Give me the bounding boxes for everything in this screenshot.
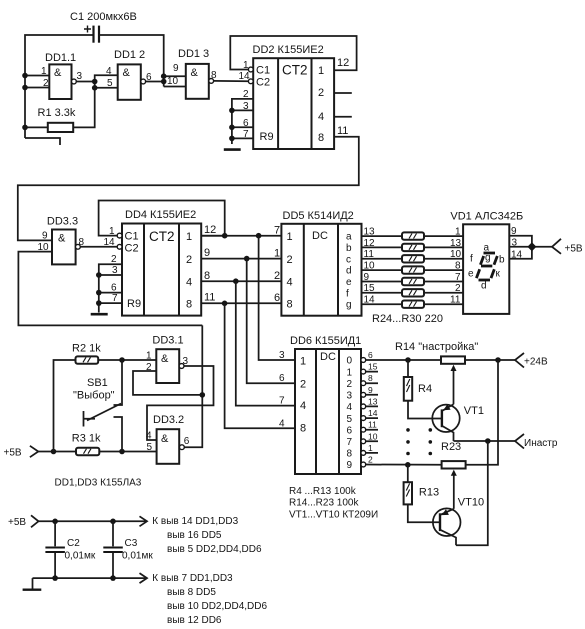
node DD4 pin6 junction xyxy=(96,290,102,296)
svg-text:R14...R23 100k: R14...R23 100k xyxy=(289,498,359,509)
wire to +24V terminal xyxy=(498,359,515,361)
wire +5V to R3 xyxy=(38,451,76,453)
wire +24V rail down to R23 xyxy=(466,360,498,465)
wire stub below left rail xyxy=(25,138,60,145)
DD6 output inversion circles xyxy=(361,358,366,467)
node +5V branch xyxy=(51,449,57,455)
wire up to R2 xyxy=(54,360,76,452)
svg-text:VT1: VT1 xyxy=(464,405,484,417)
resistor R4 xyxy=(404,377,432,401)
wire bus out2 xyxy=(201,258,281,260)
svg-text:+5В: +5В xyxy=(565,244,583,255)
wire DD1.1 pin1 xyxy=(25,75,49,77)
svg-text:&: & xyxy=(161,353,169,365)
svg-text:12: 12 xyxy=(364,238,376,249)
svg-text:8: 8 xyxy=(300,423,306,435)
node DD4 pin3 junction xyxy=(96,272,102,278)
svg-text:9: 9 xyxy=(368,385,373,395)
VD1 left pin labels 1 13 10 8 7 2 11 xyxy=(450,227,462,306)
svg-text:14: 14 xyxy=(239,71,251,82)
resistors R24-R30 xyxy=(372,232,443,325)
wires DD5 outputs to resistors xyxy=(362,236,403,304)
svg-text:11: 11 xyxy=(337,125,348,137)
display VD1 ALS342B box xyxy=(450,211,523,314)
svg-text:6: 6 xyxy=(111,283,117,294)
DD6 output stubs rows 1-8 xyxy=(366,372,378,453)
svg-text:DD4 К155ИЕ2: DD4 К155ИЕ2 xyxy=(125,209,196,221)
node DD4 pin7 junction xyxy=(96,300,102,306)
wire DD1.3 output to DD2 C2 xyxy=(214,80,249,82)
svg-text:&: & xyxy=(58,233,66,245)
VD1 segment letters xyxy=(468,243,505,292)
wire R2 to DD3.1 pin1 xyxy=(98,359,156,361)
terminal +5V right chevron xyxy=(552,239,561,254)
svg-text:0,01мк: 0,01мк xyxy=(65,551,96,562)
svg-text:&: & xyxy=(123,67,131,79)
svg-text:7: 7 xyxy=(274,225,280,237)
VD1 right pin labels 9 3 14 xyxy=(511,226,523,261)
svg-text:4: 4 xyxy=(186,277,192,289)
wire node to DD3.1 pin2 xyxy=(133,371,202,395)
svg-text:C2: C2 xyxy=(125,243,139,255)
terminal Inastr chevron xyxy=(515,434,524,449)
wire DD2 out2 stub xyxy=(334,92,352,94)
wire R4 bottom to VT1 base xyxy=(408,401,442,419)
svg-text:4: 4 xyxy=(279,418,285,429)
svg-text:8: 8 xyxy=(204,270,210,282)
svg-text:DD3.3: DD3.3 xyxy=(47,216,78,228)
wire DD3.2 out up to node xyxy=(184,325,202,447)
node Inastr junction xyxy=(485,438,491,444)
node diamond junction xyxy=(527,242,536,251)
wire R4 top xyxy=(407,360,409,377)
svg-text:C2: C2 xyxy=(256,77,270,89)
svg-text:4: 4 xyxy=(106,66,112,77)
svg-text:3: 3 xyxy=(243,101,249,112)
pin 14 C2 inversion DD4 xyxy=(117,244,122,249)
wires resistors to VD1 xyxy=(424,236,463,304)
terminal +5V bottom chevron xyxy=(31,515,39,527)
wire DD1.3 pin10 stub xyxy=(164,86,186,88)
wire left rail top xyxy=(25,35,93,138)
svg-text:VT1...VT10 КТ209И: VT1...VT10 КТ209И xyxy=(289,509,378,520)
svg-text:g: g xyxy=(485,253,491,264)
svg-text:4: 4 xyxy=(300,400,306,412)
svg-text:выв 5 DD2,DD4,DD6: выв 5 DD2,DD4,DD6 xyxy=(167,544,262,555)
svg-text:С1 200мкх6В: С1 200мкх6В xyxy=(70,11,137,23)
wire DD1.1 pin2 xyxy=(25,87,49,89)
svg-text:4: 4 xyxy=(318,111,324,123)
svg-text:R9: R9 xyxy=(260,131,274,143)
trimmer R23 xyxy=(441,441,466,509)
svg-text:2: 2 xyxy=(455,283,461,294)
node branch out4 xyxy=(233,278,239,284)
svg-text:a: a xyxy=(346,232,352,243)
svg-text:Инастр: Инастр xyxy=(524,438,558,449)
svg-text:+5В: +5В xyxy=(4,448,22,459)
wire branch out1 down to DD6 in1 xyxy=(259,236,295,360)
svg-text:R13: R13 xyxy=(419,487,439,499)
svg-text:1: 1 xyxy=(300,356,306,368)
svg-text:13: 13 xyxy=(368,396,378,406)
svg-text:c: c xyxy=(346,254,351,265)
svg-text:0,01мк: 0,01мк xyxy=(122,551,153,562)
svg-text:3: 3 xyxy=(279,350,285,361)
decoder DD6 K155ID1 box xyxy=(290,335,361,474)
wire branch out4 down to DD6 in4 xyxy=(236,281,295,405)
node C3 top xyxy=(110,519,116,525)
node DD1.3 pin9 junction xyxy=(161,73,167,79)
svg-text:2: 2 xyxy=(243,89,249,100)
switch SB1 xyxy=(73,360,122,452)
svg-text:5: 5 xyxy=(347,414,353,425)
capacitor C2 xyxy=(45,521,95,578)
wire VT1 emitter to Inastr xyxy=(454,440,516,442)
svg-text:6: 6 xyxy=(243,118,249,129)
wire bus out4 xyxy=(201,280,281,282)
node SB1 lower branch xyxy=(119,449,125,455)
svg-text:1: 1 xyxy=(287,231,293,243)
svg-text:1: 1 xyxy=(146,351,152,362)
svg-text:4: 4 xyxy=(347,402,353,413)
node DD1.2 pin5 junction xyxy=(92,85,98,91)
node C2 bottom xyxy=(52,575,58,581)
svg-text:13: 13 xyxy=(450,238,462,249)
svg-text:6: 6 xyxy=(184,436,190,447)
DD6 input pin labels 3 6 7 4 xyxy=(279,350,285,429)
svg-text:12: 12 xyxy=(204,224,216,236)
wire DD3.3 pin10 from flipflop rail xyxy=(18,252,202,326)
logic gate DD3.1 xyxy=(146,335,189,383)
svg-text:C1: C1 xyxy=(125,231,139,243)
svg-text:9: 9 xyxy=(347,460,353,471)
wire DD3.3 output to DD4 C2 xyxy=(80,246,117,248)
svg-text:выв 12 DD6: выв 12 DD6 xyxy=(167,615,222,626)
svg-text:0: 0 xyxy=(347,356,353,367)
svg-text:7: 7 xyxy=(243,129,249,140)
node SB1 upper branch xyxy=(119,357,125,363)
wire top power rail xyxy=(39,520,147,522)
svg-text:9: 9 xyxy=(42,231,48,242)
svg-text:11: 11 xyxy=(368,420,377,430)
label power connections top xyxy=(152,516,262,555)
svg-text:C1: C1 xyxy=(256,65,270,77)
svg-text:DD3.2: DD3.2 xyxy=(153,414,184,426)
svg-text:e: e xyxy=(346,277,352,288)
svg-text:R14 "настройка": R14 "настройка" xyxy=(395,341,478,353)
svg-text:14: 14 xyxy=(104,237,116,248)
svg-text:7: 7 xyxy=(112,293,118,304)
resistor R13 xyxy=(404,482,439,504)
wire DD2 pin2 to ground rail xyxy=(232,99,253,144)
svg-text:9: 9 xyxy=(173,63,179,74)
wire DD2 feedback loop pin12 to C1 xyxy=(230,36,356,70)
svg-text:C3: C3 xyxy=(125,538,138,549)
ellipsis dots column 1 xyxy=(406,428,410,455)
terminal +5V left chevron xyxy=(30,446,38,457)
svg-text:R2 1k: R2 1k xyxy=(72,343,101,355)
svg-text:"Выбор": "Выбор" xyxy=(73,390,115,402)
SEC1 top oscillator xyxy=(22,11,248,145)
node DD1.2 input junction xyxy=(92,79,98,85)
VD1 seven segment glyph xyxy=(476,253,497,280)
wire left rail to R1 xyxy=(25,126,48,128)
ground bottom left xyxy=(23,578,42,590)
svg-text:14: 14 xyxy=(364,295,376,306)
wire bus out8 xyxy=(201,302,281,304)
svg-text:1: 1 xyxy=(347,367,353,378)
svg-text:К выв 14 DD1,DD3: К выв 14 DD1,DD3 xyxy=(152,516,238,527)
wire bus out1 DD4 to DD5 xyxy=(201,235,281,237)
svg-text:2: 2 xyxy=(111,254,117,265)
svg-text:11: 11 xyxy=(364,249,375,260)
arrow bottom rail xyxy=(140,573,148,583)
svg-text:R1 3.3k: R1 3.3k xyxy=(38,107,76,119)
svg-text:3: 3 xyxy=(77,71,83,82)
logic gate DD1.2 xyxy=(106,49,152,100)
wire DD4 pin7 stub xyxy=(99,302,122,304)
terminal +24V chevron xyxy=(515,353,524,368)
counter DD4 K155IE2 box xyxy=(122,209,201,316)
wire DD4 pin3 stub xyxy=(99,274,122,276)
svg-text:5: 5 xyxy=(147,442,153,453)
svg-text:VT10: VT10 xyxy=(458,497,484,509)
svg-text:R4: R4 xyxy=(418,383,432,395)
svg-text:15: 15 xyxy=(364,283,376,294)
svg-text:2: 2 xyxy=(274,270,280,282)
svg-text:&: & xyxy=(54,67,62,79)
svg-text:2: 2 xyxy=(368,455,373,465)
SEC6 bottom power xyxy=(8,515,268,626)
svg-text:2: 2 xyxy=(287,254,293,266)
svg-text:8: 8 xyxy=(455,261,461,272)
svg-text:DD1.1: DD1.1 xyxy=(45,52,76,64)
arrow top rail xyxy=(140,516,148,526)
node branch out1 xyxy=(256,233,262,239)
logic gate DD3.3 xyxy=(38,216,85,265)
node branch out8 xyxy=(222,301,228,307)
svg-text:8: 8 xyxy=(347,449,353,460)
svg-text:6: 6 xyxy=(279,373,285,384)
svg-text:выв 8 DD5: выв 8 DD5 xyxy=(167,587,216,598)
wire R3 to DD3.2 pin5 xyxy=(99,451,156,453)
svg-text:DD1 3: DD1 3 xyxy=(178,48,209,60)
svg-text:10: 10 xyxy=(368,431,378,441)
DD6 output digits 0-9 xyxy=(347,356,353,472)
wire DD3.1 out to DD3.2 pin4 xyxy=(147,366,214,440)
logic gate DD1.3 xyxy=(167,48,217,99)
svg-text:b: b xyxy=(499,255,505,266)
svg-text:f: f xyxy=(470,254,473,265)
wire branch out8 down to DD6 in8 xyxy=(225,303,295,428)
svg-text:f: f xyxy=(346,288,349,299)
svg-text:9: 9 xyxy=(204,247,210,259)
node pin3 junction xyxy=(229,108,235,114)
svg-text:10: 10 xyxy=(450,249,462,260)
node R13 branch xyxy=(405,462,411,468)
resistor R3 1k xyxy=(72,433,101,456)
resistor R1 3.3k xyxy=(38,107,76,132)
svg-text:1: 1 xyxy=(455,227,461,238)
ground DD4 xyxy=(91,313,108,316)
svg-text:15: 15 xyxy=(368,362,378,372)
svg-text:CT2: CT2 xyxy=(149,229,175,244)
svg-text:3: 3 xyxy=(347,391,353,402)
svg-text:2: 2 xyxy=(186,254,192,266)
svg-text:3: 3 xyxy=(112,265,118,276)
svg-text:DD1 2: DD1 2 xyxy=(114,49,145,61)
svg-text:4: 4 xyxy=(287,277,293,289)
svg-text:к: к xyxy=(496,269,501,280)
wire VT10 emitter up to Inastr node xyxy=(456,441,488,545)
SEC3 DD3.3 DD4 DD5 VD1 row xyxy=(18,201,583,429)
svg-text:12: 12 xyxy=(337,57,349,69)
node DD1.1 pin2 junction xyxy=(22,85,28,91)
SEC2 DD2 counter xyxy=(18,36,359,240)
DD6 output pin numbers xyxy=(368,350,378,465)
capacitor C3 xyxy=(103,521,153,578)
svg-text:DD6 К155ИД1: DD6 К155ИД1 xyxy=(290,335,361,347)
svg-text:выв 10 DD2,DD4,DD6: выв 10 DD2,DD4,DD6 xyxy=(167,601,268,612)
wire DD2 pin7 stub xyxy=(232,137,253,139)
svg-text:e: e xyxy=(468,268,474,279)
decoder DD5 K514ID2 box xyxy=(281,210,361,316)
svg-text:1: 1 xyxy=(41,66,47,77)
svg-text:DC: DC xyxy=(312,230,328,242)
svg-text:8: 8 xyxy=(368,373,373,383)
wire DD1.3 pin9 stub xyxy=(164,75,186,77)
wire DD6 out9 row xyxy=(366,464,442,466)
svg-text:8: 8 xyxy=(318,132,324,144)
wire R13 bottom to VT10 base xyxy=(408,504,440,522)
node pin7 junction xyxy=(229,136,235,142)
svg-text:7: 7 xyxy=(455,272,461,283)
label power connections bottom xyxy=(152,573,267,626)
svg-text:+24В: +24В xyxy=(524,357,548,368)
svg-text:7: 7 xyxy=(347,437,353,448)
SEC5 DD6 transistors xyxy=(279,335,558,545)
svg-text:&: & xyxy=(161,433,169,445)
svg-text:DD2 К155ИЕ2: DD2 К155ИЕ2 xyxy=(253,44,324,56)
node R4 branch xyxy=(405,357,411,363)
svg-text:&: & xyxy=(191,67,199,79)
pin 1 C1 inversion xyxy=(248,67,253,72)
transistor VT10 xyxy=(433,497,484,546)
wire bottom ground rail xyxy=(33,577,147,579)
node R1 left junction xyxy=(22,125,28,131)
wire DD2 pin11 long feedback to DD3.3 pin9 xyxy=(18,137,359,241)
svg-text:1: 1 xyxy=(274,248,280,260)
node +24V rail xyxy=(495,357,501,363)
svg-text:DD1,DD3 К155ЛА3: DD1,DD3 К155ЛА3 xyxy=(55,478,142,489)
counter DD2 K155IE2 box xyxy=(253,44,335,149)
node DD1.1 pin1 junction xyxy=(22,73,28,79)
svg-text:g: g xyxy=(346,300,352,311)
wire DD4 pin2 to ground rail xyxy=(99,264,122,312)
wire R13 top xyxy=(407,465,409,482)
svg-text:1: 1 xyxy=(368,443,373,453)
svg-text:11: 11 xyxy=(450,295,461,306)
svg-text:2: 2 xyxy=(300,379,306,391)
svg-text:2: 2 xyxy=(43,78,49,89)
svg-text:C2: C2 xyxy=(67,538,80,549)
node loop junction on out1 xyxy=(222,233,228,239)
svg-text:R23: R23 xyxy=(441,441,461,453)
transistor VT1 xyxy=(432,404,484,441)
svg-text:выв 16 DD5: выв 16 DD5 xyxy=(167,530,222,541)
wire C1 right to DD1.3 input bridge xyxy=(99,35,164,87)
svg-text:5: 5 xyxy=(107,78,113,89)
resistor R2 1k xyxy=(72,343,101,364)
svg-text:R4 ...R13 100k: R4 ...R13 100k xyxy=(289,486,357,497)
svg-text:2: 2 xyxy=(318,87,324,99)
logic gate DD3.2 xyxy=(146,414,190,464)
wire DD2 pin3 stub xyxy=(232,109,253,111)
node C2 top xyxy=(52,519,58,525)
svg-text:9: 9 xyxy=(364,272,370,283)
wire VD1 pins 9 3 14 common xyxy=(509,236,552,259)
wire DD2 out4 stub xyxy=(334,116,352,118)
svg-text:DD5 К514ИД2: DD5 К514ИД2 xyxy=(283,210,354,222)
wire DD1.2 output to DD1.3 bridge xyxy=(146,81,164,83)
ellipsis dots column 2 xyxy=(429,428,433,455)
svg-text:d: d xyxy=(481,281,487,292)
svg-text:R9: R9 xyxy=(127,298,141,310)
ground DD2 xyxy=(224,148,241,151)
svg-text:10: 10 xyxy=(167,76,179,87)
svg-text:R3 1k: R3 1k xyxy=(72,433,101,445)
svg-text:1: 1 xyxy=(318,65,324,77)
wire R1 right up to DD1.2 input bridge xyxy=(73,75,118,127)
node pin6 junction xyxy=(229,125,235,131)
svg-text:R24...R30 220: R24...R30 220 xyxy=(372,313,443,325)
svg-text:13: 13 xyxy=(364,227,376,238)
svg-text:VD1 АЛС342Б: VD1 АЛС342Б xyxy=(450,211,523,223)
svg-text:10: 10 xyxy=(364,261,376,272)
pin labels 13 12 11 10 9 15 14 xyxy=(364,227,376,306)
svg-text:SB1: SB1 xyxy=(87,377,108,389)
wire R14 to +24V node xyxy=(465,359,498,361)
svg-text:14: 14 xyxy=(368,408,378,418)
svg-text:DC: DC xyxy=(320,351,336,363)
capacitor C1 xyxy=(70,11,137,43)
wire branch out2 down to DD6 in2 xyxy=(247,259,295,384)
svg-text:11: 11 xyxy=(204,292,215,304)
svg-text:К выв 7 DD1,DD3: К выв 7 DD1,DD3 xyxy=(152,573,233,584)
svg-text:1: 1 xyxy=(186,231,192,243)
svg-text:4: 4 xyxy=(146,431,152,442)
wire DD2 pin6 stub xyxy=(232,126,253,128)
svg-text:b: b xyxy=(346,243,352,254)
svg-text:7: 7 xyxy=(279,396,285,407)
trimmer R14 xyxy=(395,341,478,404)
wire DD4 pin6 stub xyxy=(99,292,122,294)
wire DD6 out0 row to +24V xyxy=(366,359,441,361)
logic gate DD1.1 xyxy=(41,52,83,99)
node C3 bottom xyxy=(110,575,116,581)
pin 1 C1 inversion DD4 xyxy=(117,233,122,238)
svg-text:d: d xyxy=(346,266,352,277)
SEC4 flipflop SB1 xyxy=(4,325,214,488)
svg-text:CT2: CT2 xyxy=(282,63,308,78)
wire DD4 feedback loop pin12 to C1 xyxy=(99,201,225,236)
wire DD1.1 output to bridge xyxy=(76,81,94,83)
svg-text:+5В: +5В xyxy=(8,517,26,528)
svg-text:6: 6 xyxy=(368,350,373,360)
wire DD1.2 pin5 stub xyxy=(95,87,118,89)
node DD1.3 input junction xyxy=(161,79,167,85)
svg-text:6: 6 xyxy=(274,292,280,304)
